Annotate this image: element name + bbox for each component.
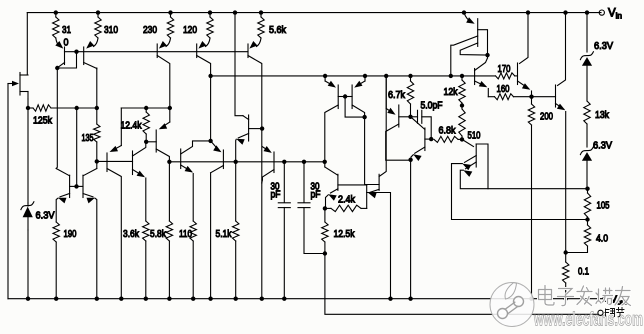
node mirror left emitter feed [323, 74, 327, 78]
wire Q21 base line [425, 138, 431, 140]
svg-text:www.elecfans.com: www.elecfans.com [533, 310, 643, 331]
resistor R21 160 [488, 94, 531, 100]
label R20 170 [498, 63, 511, 75]
wire Q2 collector down to mirror [56, 68, 57, 169]
label R25 105 [597, 200, 610, 212]
resistor R23 0.1 [563, 253, 569, 299]
label R4 135 [82, 132, 94, 144]
svg-text:5.1k: 5.1k [216, 228, 233, 240]
svg-text:12k: 12k [444, 86, 459, 98]
node ground 110 [191, 297, 195, 301]
wire Q12 base line [249, 128, 263, 130]
wire Q5 emitter to R6 [145, 178, 147, 221]
label C2 pF [311, 189, 321, 201]
wire diode connection Q2 base to collector [57, 52, 76, 68]
node ground cap C1 [282, 297, 286, 301]
wire Q18 emitter to divider [324, 207, 327, 209]
resistor R7 12.4k [143, 108, 149, 142]
node mirror right emitter feed [363, 74, 367, 78]
wire Q15 emitter from node [211, 141, 220, 151]
svg-text:310: 310 [104, 24, 118, 36]
transistor Q14 NPN [181, 141, 211, 173]
resistor R12 5.1k [233, 162, 239, 299]
svg-text:6.3V: 6.3V [593, 140, 612, 152]
label D2 6.3V [594, 40, 613, 52]
capacitor C2 30pF [298, 162, 325, 254]
svg-text:0.1: 0.1 [578, 266, 589, 278]
node mirror base link [343, 94, 347, 98]
node ground 5.6k collector line [260, 297, 264, 301]
transistor Q16 mirror PNP left [325, 85, 338, 167]
resistor R8 5.8k [166, 221, 172, 299]
wire Q4 base line [97, 160, 133, 162]
capacitor C1 30pF [278, 162, 290, 299]
terminal Vin [599, 10, 604, 15]
node top rail Q22 emitter [462, 10, 466, 14]
transistor Q24 NPN [518, 13, 532, 97]
node 510 bottom / 6.8k [460, 137, 464, 141]
transistor Q13 PNP [262, 146, 274, 180]
capacitor C3 5.0pF [411, 110, 432, 139]
label C1 30 [271, 181, 280, 193]
label R8 5.8k [150, 228, 167, 240]
svg-text:125k: 125k [33, 115, 53, 127]
wire left rail from top corner down to JFET drain [20, 13, 27, 75]
label adjust 调节 [605, 308, 624, 317]
label R3 125k [33, 115, 53, 127]
node Q22 collector / Q24 collector [485, 53, 489, 57]
transistor Q5 NPN [133, 144, 146, 177]
resistor R14 2.4k [325, 205, 367, 211]
label R24 13k [595, 109, 610, 121]
resistor R25 105 [584, 189, 590, 220]
node Q17 collector join [362, 115, 366, 119]
resistor R26 4.0 [566, 220, 591, 253]
resistor R11 5.6k [257, 13, 265, 47]
node top rail Q25 collector [563, 10, 567, 14]
terminal adjust [598, 310, 603, 315]
transistor Q18 NPN gain stage [325, 167, 338, 207]
wire Q15 collector to ground [210, 173, 212, 299]
transistor Q6 mirror left NPN [56, 169, 69, 204]
transistor Q1 JFET current source [8, 73, 28, 100]
label R1 31 [62, 24, 71, 36]
wire Q18 base line [338, 184, 367, 186]
wire 2.4k right vertical [366, 185, 368, 209]
resistor R9 230 [166, 13, 174, 47]
node ground 190 [54, 297, 58, 301]
transistor Q12 NPN [236, 115, 249, 162]
node zener ground [26, 297, 30, 301]
wire Q17 emitter diag [357, 81, 366, 86]
label R17 6.8k [439, 125, 457, 137]
wire Q17 emitter [364, 76, 366, 81]
transistor Q26 output NPN double emitter [462, 139, 476, 177]
svg-text:4.0: 4.0 [596, 233, 608, 245]
arrow emitter Q3 input pair right [86, 41, 94, 49]
node 13k bottom sense [585, 187, 589, 191]
node Q21 base / cap [429, 137, 433, 141]
zener diode D2 6.3V [580, 52, 593, 101]
node top rail vertical [233, 10, 237, 14]
svg-text:120: 120 [183, 24, 197, 36]
transistor Q4 PNP [107, 108, 121, 299]
svg-text:230: 230 [143, 24, 157, 36]
wire node down to zener D1 [27, 108, 29, 203]
svg-text:5.6k: 5.6k [269, 24, 287, 36]
svg-text:135: 135 [82, 132, 94, 144]
node 105 bottom sense [585, 217, 589, 221]
svg-text:3.6k: 3.6k [123, 228, 140, 240]
wire node down to ground [410, 160, 412, 299]
svg-text:510: 510 [468, 130, 481, 142]
node Q20 collector / Q21 emitter [408, 158, 412, 162]
svg-text:12.4k: 12.4k [121, 120, 143, 132]
svg-text:190: 190 [64, 228, 77, 240]
wire Q26 emitter2 loop [460, 170, 488, 189]
wire mirror base vertical [76, 108, 78, 186]
wire long vertical Q12 collector [235, 13, 243, 116]
node base tie Q2 [74, 50, 78, 54]
resistor R2 310 [94, 13, 102, 47]
node mirror base link [74, 184, 78, 188]
wire Q17 collector to Q19 base [365, 117, 380, 184]
wire mid rail y76 [211, 75, 475, 77]
terminal Vout [603, 296, 608, 301]
transistor Q7 mirror right NPN [70, 169, 97, 299]
wire Q3 collector down [96, 68, 98, 108]
node cap C2 top [302, 160, 306, 164]
label R5 190 [64, 228, 77, 240]
node Q3 collector / 135 top [95, 106, 99, 110]
transistor Q3 input PNP right [84, 47, 97, 69]
resistor R15 12.5k [322, 208, 328, 253]
transistor Q15 PNP [211, 150, 224, 173]
node feedback divider [323, 206, 327, 210]
wire Q14 emitter to R13 [192, 174, 194, 222]
label R19 510 [468, 130, 481, 142]
wire ground rail [8, 298, 603, 300]
wire Q26 emitter1 to sense [452, 164, 588, 220]
node Q22 collector rail [449, 74, 453, 78]
label R26 4.0 [596, 233, 608, 245]
node top rail Q24 collector [526, 10, 530, 14]
label R21 160 [497, 83, 510, 95]
label C3 5.0pF [421, 100, 443, 112]
resistor R1 310 [53, 13, 60, 47]
watermark elecfans logo and text [490, 283, 643, 331]
arrow emitter Q22 [464, 13, 475, 24]
wire Q8 base line [146, 141, 156, 143]
node ground Q19 stub [388, 297, 392, 301]
wire Q26 collector loop [476, 144, 587, 189]
wire Q13 collector merge [261, 180, 264, 183]
node ground 135 column [95, 297, 99, 301]
svg-text:2.4k: 2.4k [338, 194, 356, 206]
resistor R16 6.7k [407, 76, 413, 117]
node Q24 emitter node [529, 95, 533, 99]
svg-text:105: 105 [597, 200, 610, 212]
node ground Q4 collector [119, 297, 123, 301]
arrow emitter Q11 5.6k [249, 41, 257, 49]
node mid rail left end [167, 160, 171, 164]
node Q12 emitter to mid rail [234, 160, 238, 164]
node Q12 base on 5.6k line [260, 126, 264, 130]
node ground 3.6k [144, 297, 148, 301]
wire y108 segment [121, 107, 146, 109]
node Q4 Q5 base node [95, 159, 99, 163]
wire JFET source to 125k node [27, 99, 29, 108]
node top rail R2 [96, 10, 100, 14]
arrow emitter Q2 input pair left [55, 41, 63, 49]
label R23 0.1 [578, 266, 589, 278]
label R10 120 [183, 24, 197, 36]
node cap C1 top [282, 160, 286, 164]
label R6 3.6k [123, 228, 140, 240]
node top rail R9 [168, 10, 172, 14]
label R12 5.1k [216, 228, 233, 240]
transistor Q22 dual collector PNP [451, 19, 488, 76]
zener diode D3 6.3V [580, 147, 593, 189]
wire mid horizontal rail [169, 161, 324, 163]
label C1 pF [271, 189, 281, 201]
resistor R4 135 [94, 108, 100, 161]
svg-text:200: 200 [540, 111, 553, 123]
arrow emitter Q17 [354, 81, 362, 88]
node 12k top [460, 74, 464, 78]
label Vin [608, 8, 622, 21]
label R18 12k [444, 86, 459, 98]
node ground 5.1k [234, 297, 238, 301]
svg-text:110: 110 [179, 228, 192, 240]
node ground Q20 line [408, 297, 412, 301]
svg-text:pF: pF [311, 189, 321, 201]
node Q25 emitter / 4.0 join [564, 250, 568, 254]
wire base rail of PNP level shifters [65, 51, 249, 53]
transistor Q25 NPN output [556, 13, 566, 253]
node Q19 collector rail [384, 74, 388, 78]
svg-text:12.5k: 12.5k [334, 228, 356, 240]
arrow emitter Q15 [213, 145, 221, 152]
zener diode D1 6.3V [21, 202, 34, 230]
wire adjust line [325, 254, 598, 315]
label R2 310 [104, 24, 118, 36]
node 230 collector [168, 106, 172, 110]
arrow emitter Q9 230 [159, 41, 167, 49]
resistor R19 510 [459, 106, 465, 140]
svg-text:5.8k: 5.8k [150, 228, 167, 240]
svg-text:6.8k: 6.8k [439, 125, 457, 137]
wire Q6 emitter to R5 [56, 198, 58, 222]
node Q10 collector corner [208, 74, 212, 141]
node 6.7k top [408, 74, 412, 78]
label R15 12.5k [334, 228, 356, 240]
label Vout [610, 294, 628, 307]
resistor R22 200 [528, 97, 534, 299]
label R16 6.7k [388, 89, 406, 101]
node mid rail right end [323, 160, 327, 164]
resistor R20 170 [475, 73, 518, 79]
wire Q25 base line [532, 96, 556, 98]
transistor Q11 PNP 5.6k [248, 44, 262, 299]
node adjust node [323, 251, 327, 255]
arrow emitter Q10 120 [198, 41, 206, 49]
node top rail R1 [54, 10, 58, 14]
node top rail zener column [585, 10, 589, 14]
label R9 230 [143, 24, 157, 36]
svg-text:6.3V: 6.3V [594, 40, 613, 52]
resistor R13 110 [190, 221, 196, 299]
transistor Q8 PNP [156, 108, 170, 162]
svg-text:5.0pF: 5.0pF [421, 100, 443, 112]
node Q20 base / 6.7k bottom [408, 115, 412, 119]
wire Q16 emitter [324, 76, 326, 81]
svg-text:pF: pF [271, 189, 281, 201]
node JFET source / 125k [26, 106, 30, 110]
wire JFET gate to ground rail [7, 84, 9, 299]
label D1 6.3V [36, 210, 55, 222]
transistor Q10 PNP 120 [197, 44, 211, 76]
wire Q20 base line [399, 116, 411, 118]
node Q2 collector [55, 66, 59, 70]
transistor Q19 NPN [368, 76, 386, 198]
wire 125k node to Q3 collector line [77, 107, 97, 109]
resistor R6 3.6k [143, 221, 149, 299]
wire Q16 emitter diag [325, 81, 334, 86]
resistor R18 12k [459, 76, 465, 106]
svg-text:6.3V: 6.3V [36, 210, 55, 222]
wire base node down to Q7 collector [96, 161, 98, 168]
label C2 30 [311, 181, 320, 193]
node top rail R11 [259, 10, 263, 14]
node output 0.1 bottom [564, 297, 568, 301]
svg-text:6.7k: 6.7k [388, 89, 406, 101]
node 12.4k top [144, 106, 148, 110]
node ground 200 [529, 297, 533, 301]
transistor Q2 input PNP left [58, 47, 65, 67]
transistor Q20 PNP [386, 76, 411, 160]
transistor Q21 NPN [411, 118, 425, 161]
label D3 6.3V [593, 140, 612, 152]
label R1 0 [64, 37, 69, 49]
node ground 5.8k [167, 297, 171, 301]
svg-text:31: 31 [62, 24, 71, 36]
label R11 5.6k [269, 24, 287, 36]
svg-text:13k: 13k [595, 109, 610, 121]
wire top supply rail [27, 12, 601, 14]
resistor R24 13k [584, 101, 590, 147]
node top rail R10 [208, 10, 212, 14]
label R13 110 [179, 228, 192, 240]
arrow emitter Q16 [328, 81, 336, 88]
label R14 2.4k [338, 194, 356, 206]
resistor R5 190 [53, 222, 59, 299]
label R7 12.4k [121, 120, 143, 132]
svg-text:160: 160 [497, 83, 510, 95]
transistor Q23 NPN driver [475, 55, 489, 97]
node Q10 collector junction [208, 139, 212, 143]
transistor Q17 mirror PNP right diode connected [338, 85, 364, 117]
wire zener D1 to ground [27, 230, 29, 299]
label R22 200 [540, 111, 553, 123]
wire 5.8k column [168, 162, 170, 221]
wire y108 to Q8 [146, 107, 170, 109]
transistor Q9 PNP 230 [157, 44, 170, 108]
node 12k 510 junction [460, 103, 464, 107]
svg-text:170: 170 [498, 63, 511, 75]
wire Q19 emitter right stub [367, 193, 391, 299]
node mirror base feed [75, 106, 79, 110]
node Q8 base / Q5 collector [144, 140, 148, 144]
resistor R10 120 [206, 13, 214, 47]
resistor R17 6.8k [434, 136, 462, 142]
node ground Q13 area [208, 297, 212, 301]
resistor R3 125k [28, 105, 77, 111]
wire zener column top [586, 13, 588, 52]
